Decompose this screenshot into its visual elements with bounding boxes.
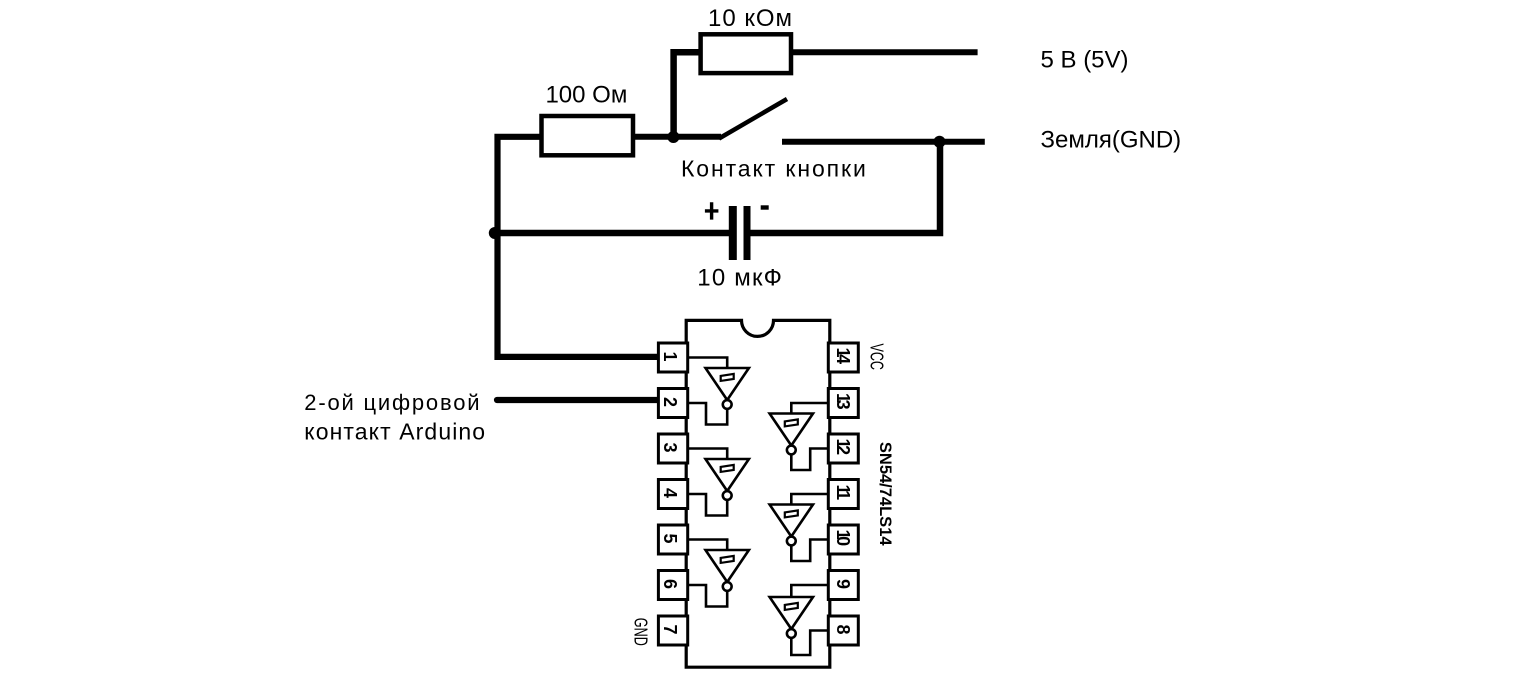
inverter gate 5 triangle bbox=[770, 505, 813, 537]
pin 13 box bbox=[828, 389, 858, 418]
svg-text:Контакт кнопки: Контакт кнопки bbox=[681, 156, 868, 182]
wire from Arduino label to IC pin 2 bbox=[497, 397, 658, 403]
svg-text:GND: GND bbox=[630, 618, 650, 646]
svg-text:7: 7 bbox=[660, 624, 680, 634]
inverter gate 3 hysteresis symbol bbox=[721, 556, 734, 563]
inverter gate 6 triangle bbox=[770, 414, 813, 446]
switch blade (Контакт кнопки) bbox=[719, 99, 787, 139]
svg-text:9: 9 bbox=[833, 579, 853, 589]
inverter gate 1 triangle bbox=[706, 368, 749, 400]
svg-text:Земля(GND): Земля(GND) bbox=[1041, 127, 1182, 154]
svg-text:SN54/74LS14: SN54/74LS14 bbox=[876, 442, 894, 546]
svg-text:8: 8 bbox=[833, 624, 853, 634]
svg-text:10 кОм: 10 кОм bbox=[708, 5, 793, 32]
pin 10 box bbox=[828, 525, 858, 554]
pin 2 box bbox=[658, 389, 687, 418]
pin 4 box bbox=[658, 480, 687, 509]
wire R1 left stub down to junction A bbox=[674, 52, 702, 137]
svg-text:6: 6 bbox=[660, 579, 680, 589]
inverter gate 5 hysteresis symbol bbox=[785, 510, 798, 517]
wire R1 right to 5V label bbox=[789, 49, 978, 55]
pin 6 box bbox=[658, 571, 687, 600]
wire bottom from junction C to capacitor left plate bbox=[495, 230, 730, 237]
pin 12 box bbox=[828, 434, 858, 463]
inverter gate 3 output bubble bbox=[723, 582, 732, 591]
inverter gate 6 hysteresis symbol bbox=[785, 419, 798, 426]
inverter gate 3 triangle bbox=[706, 550, 749, 582]
capacitor C1 right plate bbox=[744, 206, 751, 260]
pin 14 box bbox=[828, 343, 858, 372]
inverter gate 4 triangle bbox=[770, 597, 813, 629]
wire junction B down and left to capacitor right plate bbox=[749, 142, 940, 233]
capacitor C1 left plate bbox=[729, 206, 737, 260]
inverter gate 1 (pins 1-2) input wire bbox=[688, 358, 727, 369]
node junction B on GND wire bbox=[934, 136, 946, 148]
inverter gate 2 output wire to pin 4 bbox=[688, 494, 727, 516]
inverter gate 4 (pins 9-8) input wire bbox=[791, 585, 828, 597]
inverter gate 1 output wire to pin 2 bbox=[688, 403, 727, 425]
inverter gate 6 (pins 13-12) input wire bbox=[791, 403, 828, 414]
svg-text:5 В (5V): 5 В (5V) bbox=[1041, 47, 1129, 74]
inverter gate 4 hysteresis symbol bbox=[785, 603, 798, 610]
inverter gate 2 (pins 3-4) input wire bbox=[688, 449, 727, 460]
resistor R2 100 Ом bbox=[542, 82, 634, 156]
label 2-ой цифровой контакт Arduino bbox=[304, 390, 486, 445]
pin 9 box bbox=[828, 571, 858, 600]
svg-text:100 Ом: 100 Ом bbox=[545, 82, 627, 109]
svg-text:2: 2 bbox=[660, 397, 680, 407]
pin 1 box bbox=[658, 343, 687, 372]
inverter gate 2 triangle bbox=[706, 459, 749, 491]
svg-text:1: 1 bbox=[660, 351, 680, 361]
inverter gate 2 output bubble bbox=[723, 491, 732, 500]
inverter gate 4 output wire to pin 8 bbox=[791, 631, 828, 656]
inverter gate 5 output bubble bbox=[787, 537, 796, 546]
IC U1 SN54/74LS14 body bbox=[686, 320, 830, 667]
capacitor C1 plus sign bbox=[705, 202, 719, 219]
inverter gate 3 output wire to pin 6 bbox=[688, 585, 727, 607]
svg-text:4: 4 bbox=[660, 488, 680, 498]
inverter gate 3 (pins 5-6) input wire bbox=[688, 540, 727, 551]
inverter gate 6 output bubble bbox=[787, 446, 796, 455]
svg-text:VCC: VCC bbox=[866, 344, 886, 371]
wire left vertical from R2 left down to IC pin 1 bbox=[498, 137, 659, 357]
switch right contact wire to GND label bbox=[782, 139, 985, 145]
pin 5 box bbox=[658, 525, 687, 554]
inverter gate 1 hysteresis symbol bbox=[721, 374, 734, 381]
svg-text:3: 3 bbox=[660, 442, 680, 452]
inverter gate 5 (pins 11-10) input wire bbox=[791, 494, 828, 505]
svg-text:2-ой цифровой: 2-ой цифровой bbox=[304, 390, 481, 415]
inverter gate 5 output wire to pin 10 bbox=[791, 540, 828, 562]
wire R2 right to junction A and switch pivot bbox=[631, 134, 721, 140]
inverter gate 6 output wire to pin 12 bbox=[791, 449, 828, 471]
inverter gate 4 output bubble bbox=[787, 629, 796, 638]
svg-text:5: 5 bbox=[660, 533, 680, 543]
inverter gate 1 output bubble bbox=[723, 400, 732, 409]
pin 8 box bbox=[828, 616, 858, 645]
capacitor C1 minus sign bbox=[761, 205, 769, 209]
node junction A bbox=[667, 131, 679, 143]
pin 11 box bbox=[828, 480, 858, 509]
resistor R1 10 кОм bbox=[701, 5, 793, 73]
svg-text:контакт Arduino: контакт Arduino bbox=[304, 419, 486, 445]
node junction C bbox=[489, 227, 501, 239]
inverter gate 2 hysteresis symbol bbox=[721, 465, 734, 472]
svg-text:10 мкФ: 10 мкФ bbox=[697, 264, 783, 291]
pin 7 box bbox=[658, 616, 687, 645]
pin 3 box bbox=[658, 434, 687, 463]
